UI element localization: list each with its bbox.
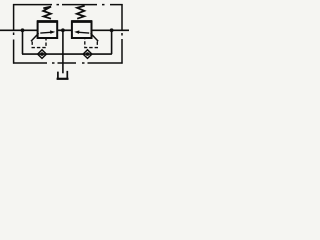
- valve V1 adjustment diagonal: [31, 33, 39, 41]
- wire: center drain line to tank: [62, 30, 64, 73]
- node: left junction: [21, 28, 25, 32]
- tank symbol: [58, 71, 67, 79]
- valve V2 pilot line (dashed): [85, 38, 98, 47]
- wire: lower horizontal line through check valves: [22, 53, 112, 55]
- check valve CV1 (diamond with ball): [38, 50, 47, 59]
- valve V1 pilot line (dashed): [32, 38, 46, 47]
- regulator valve V2 body: [72, 21, 92, 38]
- check valve CV2 (diamond with ball): [83, 50, 92, 59]
- enclosure border top (dash-dot): [13, 4, 123, 6]
- wire: left branch down: [22, 30, 24, 54]
- enclosure border left (dash-dot): [13, 4, 15, 64]
- wire: right inlet port line: [92, 29, 130, 31]
- valve V1 spring: [43, 7, 51, 19]
- valve V2 flow arrow: [79, 31, 90, 34]
- regulator valve V1 body: [38, 21, 58, 38]
- valve V2 spring: [77, 6, 85, 19]
- wire: right branch down: [111, 30, 113, 54]
- wire: line between valve outlets: [57, 29, 72, 31]
- valve V2 adjustment diagonal: [91, 33, 99, 41]
- enclosure border bottom (dash-dot): [13, 62, 123, 64]
- node: right junction: [110, 28, 114, 32]
- valve V1 flow arrow: [40, 31, 51, 34]
- enclosure border right (dash-dot): [121, 4, 123, 64]
- node: center junction: [61, 28, 65, 32]
- wire: left inlet port line: [0, 29, 38, 31]
